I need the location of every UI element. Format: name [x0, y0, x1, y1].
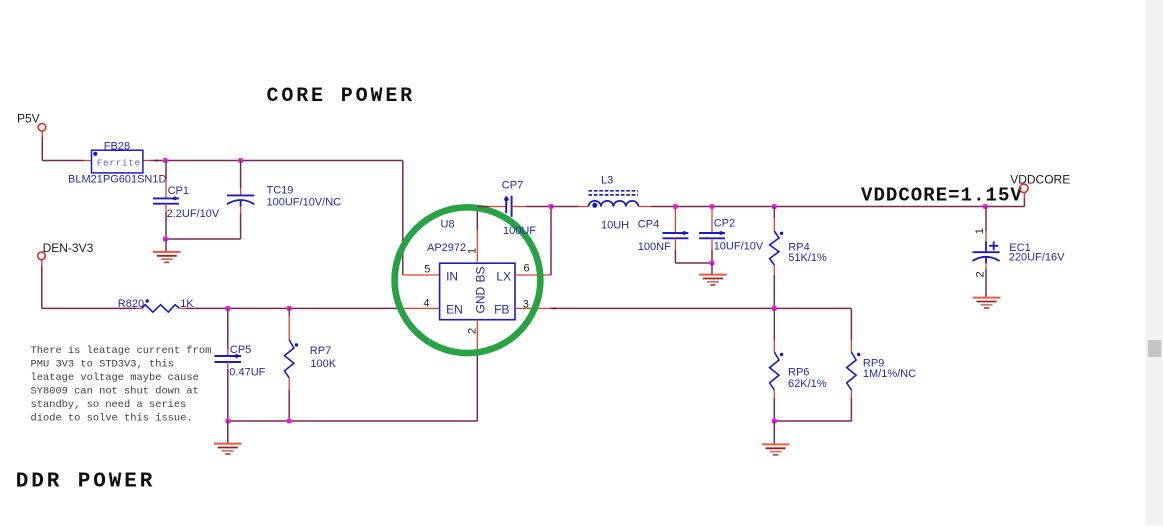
node junction top rail at CP1 [163, 158, 168, 163]
resistor RP4 51K/1% [772, 204, 777, 209]
svg-text:RP7: RP7 [310, 345, 331, 357]
capacitor EC1 220UF/16V [983, 204, 988, 209]
svg-text:GND: GND [473, 287, 487, 314]
wire to ground [773, 421, 775, 444]
svg-text:10UF/10V: 10UF/10V [714, 241, 764, 253]
wire VDDCORE down [1023, 193, 1025, 199]
capacitor CP2 [710, 204, 715, 209]
ground under CP5 [214, 443, 242, 445]
wire R820 to EN [186, 307, 403, 309]
green highlight circle [395, 207, 541, 353]
wire IN pin stub [403, 274, 440, 276]
wire to ground [165, 239, 167, 252]
svg-text:SY8009 can not shut down at: SY8009 can not shut down at [31, 386, 199, 398]
VDDCORE rail [551, 206, 578, 208]
svg-text:CP2: CP2 [714, 218, 735, 230]
scrollbar track [1145, 0, 1163, 526]
node junction DEN rail at CP5 [225, 306, 230, 311]
wire P5V to FB28 [42, 160, 84, 162]
svg-text:There is leatage current from: There is leatage current from [31, 345, 212, 357]
svg-text:100NF: 100NF [638, 241, 671, 253]
svg-text:standby, so need a series: standby, so need a series [31, 399, 187, 411]
svg-text:U8: U8 [441, 219, 455, 231]
svg-text:1: 1 [974, 228, 986, 234]
svg-text:0.47UF: 0.47UF [229, 367, 265, 379]
capacitor CP1 [165, 161, 167, 180]
svg-text:10UH: 10UH [601, 219, 629, 231]
resistor RP6 62K/1% [773, 308, 775, 340]
svg-text:62K/1%: 62K/1% [788, 378, 827, 390]
capacitor TC19 [240, 161, 242, 189]
resistor RP7 100K [288, 308, 290, 316]
svg-text:VDDCORE: VDDCORE [1010, 172, 1070, 186]
svg-text:100UF/10V/NC: 100UF/10V/NC [267, 197, 342, 209]
svg-text:diode to solve this issue.: diode to solve this issue. [31, 413, 193, 425]
inductor L3 10UH [578, 206, 589, 208]
wire CP4 to CP2 bottom [675, 262, 712, 264]
svg-text:DDR POWER: DDR POWER [16, 470, 156, 493]
svg-text:VDDCORE=1.15V: VDDCORE=1.15V [861, 185, 1023, 207]
svg-text:R820: R820 [118, 298, 144, 310]
svg-text:4: 4 [423, 297, 429, 309]
node junction top rail at TC19 [238, 158, 243, 163]
svg-text:FB28: FB28 [104, 140, 130, 152]
wire U8 top stub [476, 230, 478, 263]
svg-text:Ferrite: Ferrite [97, 158, 141, 169]
svg-text:AP2972: AP2972 [427, 242, 466, 254]
svg-text:100UF: 100UF [503, 225, 536, 237]
svg-text:BLM21PG601SN1D: BLM21PG601SN1D [68, 174, 166, 186]
svg-text:DEN-3V3: DEN-3V3 [43, 241, 94, 255]
gnd rail bottom left [228, 420, 477, 422]
svg-text:CP1: CP1 [168, 185, 189, 197]
ground under RP6 [762, 443, 790, 445]
svg-text:2.2UF/10V: 2.2UF/10V [167, 208, 220, 220]
wire CP5 gnd stub [227, 421, 229, 444]
svg-text:IN: IN [446, 269, 458, 283]
wire tick [553, 307, 556, 309]
svg-text:CP7: CP7 [502, 180, 523, 192]
ferrite bead FB28 [84, 160, 92, 162]
wire to ground [711, 263, 713, 275]
wire TC19 bottom to CP1 bottom [166, 238, 241, 240]
svg-text:BS: BS [473, 266, 487, 282]
capacitor CP5 [227, 308, 229, 349]
node junction CP7/LX [549, 204, 554, 209]
svg-text:PMU 3V3 to STD3V3, this: PMU 3V3 to STD3V3, this [31, 359, 174, 371]
wire DEN down [41, 260, 43, 266]
ground under CP2 [699, 274, 727, 276]
svg-text:1M/1%/NC: 1M/1%/NC [863, 368, 916, 380]
wire LX up to rail [550, 207, 552, 276]
capacitor CP4 [673, 204, 678, 209]
svg-text:6: 6 [524, 262, 530, 274]
svg-text:EN: EN [446, 302, 463, 316]
capacitor CP7 [477, 206, 489, 208]
ground under EC1 [973, 297, 1001, 299]
svg-text:CP4: CP4 [638, 219, 659, 231]
wire U8 bottom GND stub [476, 320, 478, 355]
svg-text:2: 2 [975, 271, 987, 277]
wire corner down to IN [402, 161, 404, 276]
svg-text:CORE POWER: CORE POWER [267, 85, 416, 108]
svg-text:leatage voltage maybe cause: leatage voltage maybe cause [31, 372, 199, 384]
svg-text:CP5: CP5 [230, 344, 251, 356]
wire tick [155, 160, 158, 162]
svg-text:5: 5 [424, 264, 430, 276]
svg-text:TC19: TC19 [267, 185, 294, 197]
wire RP6-RP9 bottom rail [774, 420, 851, 422]
ground under CP1 [153, 251, 181, 253]
scrollbar thumb [1148, 340, 1161, 357]
svg-text:FB: FB [494, 302, 509, 316]
FB net wire [550, 307, 851, 309]
svg-text:100K: 100K [310, 358, 336, 370]
wire DEN to R820 [42, 307, 136, 309]
svg-text:RP6: RP6 [788, 367, 809, 379]
node junction DEN rail at RP7 [287, 306, 292, 311]
svg-text:P5V: P5V [17, 111, 40, 125]
resistor R820 1K [136, 307, 142, 309]
wire FB stub [515, 307, 550, 309]
svg-text:220UF/16V: 220UF/16V [1009, 252, 1065, 264]
wire LX stub [515, 274, 551, 276]
resistor RP9 1M/1%/NC [850, 308, 852, 340]
svg-text:51K/1%: 51K/1% [788, 252, 827, 264]
wire P5V down [41, 131, 43, 137]
op-chip U8 AP2972 [440, 263, 515, 320]
wire FB28 to corner [151, 160, 403, 162]
svg-text:LX: LX [496, 269, 511, 283]
node junction CP1/TC19 gnd [163, 237, 168, 242]
svg-text:L3: L3 [601, 175, 613, 187]
